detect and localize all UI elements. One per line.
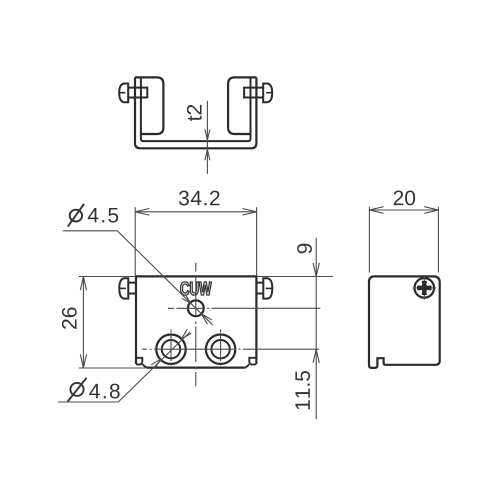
dimension 34.2 left arrow [135,209,149,216]
top view right screw head (pan head profile) [263,84,272,103]
label φ4.5 diameter symbol [70,210,82,222]
CUW logo embossed on front face [181,282,212,295]
hole φ4.8 left outer circle [156,335,185,364]
dimension 34.2 line [135,211,256,213]
dimension 9 arrow (points down at top edge) [313,263,319,277]
horizontal center line through hole φ4.5 [168,307,320,309]
side view phillips screw head circle [415,278,435,298]
horizontal center line through bottom holes [142,348,319,350]
dimension 11.5 arrow (points up at holes center line) [313,349,319,363]
dimension 9 text [297,244,312,254]
top view right screw slot line [266,92,272,94]
leader φ4.8 barbs at upper circle edge [182,329,192,339]
side view body outline with bottom-left tab notch [369,276,440,368]
vertical center line right hole [220,330,222,366]
dimension 34.2 text [179,191,220,206]
dimension 26 text [62,308,77,329]
dimension 34.2 extension line right [256,207,258,275]
dimension 34.2 right arrow [243,209,257,216]
dimension 20 extension line left [368,207,370,273]
dimension 9 and 11.5 shared vertical line [315,238,317,419]
dimension 26 top extension line [79,276,136,278]
top view outer profile (channel outer walls and bottom) [135,77,256,148]
hole right inner circle [211,340,229,358]
dimension t2 upper arrow (points down) [205,129,210,140]
dimension 20 right arrow [424,207,438,214]
leader φ4.5 barbs at far circle edge [201,314,211,324]
dimension 11.5 text [295,371,310,409]
dimension t2 line [206,101,208,174]
front view bottom-left corner notch [136,358,146,368]
label φ4.5 digits [88,208,118,223]
dimension 20 extension line right [437,207,439,273]
front view bottom edge [146,367,245,369]
label φ4.8 diameter symbol [70,383,83,396]
top view right flange (rounded tab) [228,77,256,134]
top view left screw slot line [119,92,125,94]
dimension t2 text [187,105,202,121]
top view right screw shank and square hole band [244,88,263,98]
dimension 26 bottom arrow [80,354,86,368]
front view right screw head [263,278,272,298]
dimension 26 line [82,277,84,368]
front view body outline top and sides [136,276,256,364]
front view left screw shank [128,283,136,294]
leader φ4.5 diagonal [117,231,212,325]
top view left screw head (pan head profile) [119,84,128,103]
leader φ4.8 barbs at lower circle edge [151,360,160,369]
leader φ4.8 diagonal [118,332,190,402]
front view left screw slot [119,287,126,289]
top edge extension line to the right [258,276,334,278]
dimension 34.2 extension line left [134,207,136,275]
vertical center line left hole [170,330,172,366]
label φ4.8 digits [89,384,119,399]
dimension 20 text [394,190,415,205]
hole φ4.5 (top center) [188,300,204,316]
hole right outer circle [206,335,235,364]
top view left flange (rounded tab) [135,77,163,134]
phillips screw crosshair lines [413,276,437,300]
phillips screw cross recess (filled plus) [417,281,431,295]
dimension 20 line [369,209,438,211]
front view bottom-right corner notch [246,358,257,368]
leader φ4.5 barbs at near circle edge [182,295,191,304]
hole φ4.8 left inner circle [162,340,180,358]
dimension t2 lower arrow (points up) [205,150,210,161]
front view left screw head [119,278,128,298]
leader φ4.5 underline [63,230,118,232]
front view right screw slot [266,287,273,289]
top view inner profile (channel inner walls and bottom) [141,78,251,141]
dimension 26 bottom extension line [79,367,146,369]
vertical center line of front view [195,263,197,387]
top view left screw shank and square hole band [128,88,147,98]
dimension 20 left arrow [369,207,383,214]
dimension 26 top arrow [80,277,86,291]
leader φ4.8 underline [58,401,118,403]
front view right screw shank [256,283,263,294]
